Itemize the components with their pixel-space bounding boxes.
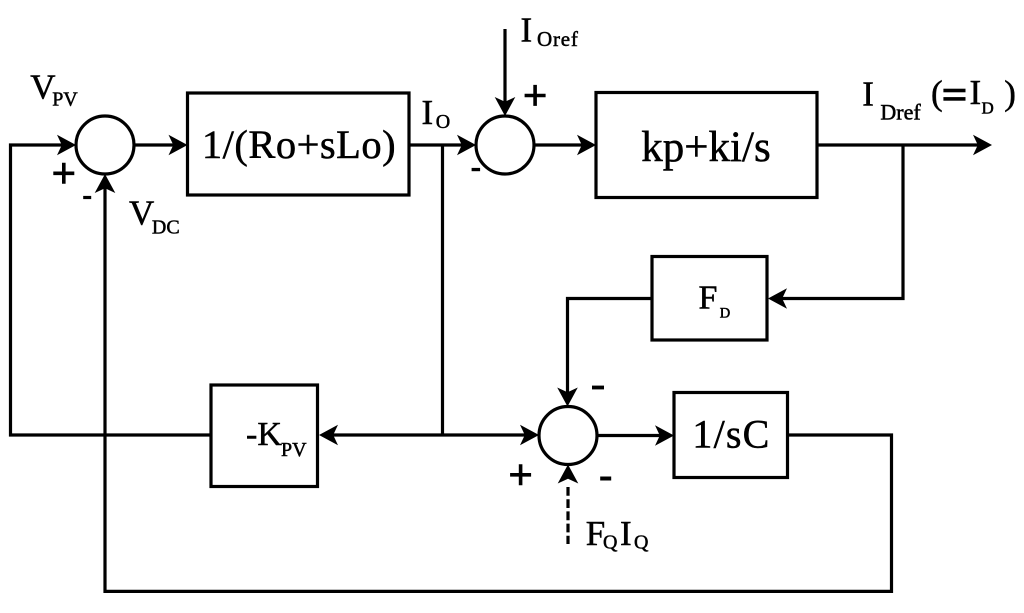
wire Ioref input xyxy=(503,29,506,102)
block -Kpv xyxy=(211,385,318,487)
wire branch to FD xyxy=(782,146,903,299)
plus sign sum2 xyxy=(525,85,546,106)
svg-text:F: F xyxy=(699,279,718,316)
arrowhead into block1 xyxy=(169,135,188,156)
wire dashed FqIq input xyxy=(566,487,569,544)
arrowhead into FD right xyxy=(768,288,787,309)
summing node 2 xyxy=(476,116,534,174)
svg-text:Q: Q xyxy=(603,532,618,554)
svg-text:O: O xyxy=(436,111,450,133)
minus sign sum3 bottom xyxy=(600,477,611,481)
svg-text:I: I xyxy=(521,11,533,50)
wire FD to sum3 xyxy=(568,299,653,394)
svg-text:I: I xyxy=(620,514,632,553)
svg-text:PV: PV xyxy=(52,89,78,111)
svg-text:DC: DC xyxy=(152,217,180,239)
svg-text:Q: Q xyxy=(634,532,649,554)
plus sign sum1 xyxy=(53,163,74,184)
svg-text:I: I xyxy=(422,93,434,132)
block FD xyxy=(652,257,767,341)
arrowhead output right xyxy=(973,135,992,156)
arrowhead into sum3 top xyxy=(557,388,578,407)
svg-text:D: D xyxy=(720,305,730,321)
svg-text:V: V xyxy=(129,193,154,232)
svg-text:): ) xyxy=(1004,74,1016,113)
summing node 1 xyxy=(76,116,134,174)
svg-text:D: D xyxy=(982,98,994,117)
arrowhead into sum2 top xyxy=(495,97,516,116)
wire block1 to sum2 xyxy=(409,143,462,146)
wire sum1 to block1 xyxy=(134,143,174,146)
arrowhead dashed into sum3 bottom xyxy=(558,465,579,484)
wire sum2 to block2 xyxy=(534,143,582,146)
wire Io row to -Kpv and sum3 xyxy=(333,433,525,436)
svg-text:I: I xyxy=(862,75,874,114)
svg-text:Dref: Dref xyxy=(880,99,921,124)
arrowhead into -Kpv right xyxy=(319,425,338,446)
svg-text:(: ( xyxy=(931,74,943,113)
block 1/sC xyxy=(674,393,788,478)
arrowhead into sum1 left xyxy=(57,135,76,156)
minus sign sum2 xyxy=(472,168,481,171)
arrowhead into sum1 bottom xyxy=(95,174,116,193)
block kp+ki/s xyxy=(596,93,817,198)
svg-text:-K: -K xyxy=(246,416,282,453)
arrowhead into sum3 left xyxy=(520,425,539,446)
svg-text:1/(Ro+sLo): 1/(Ro+sLo) xyxy=(202,122,396,167)
wire output Idref xyxy=(817,143,978,146)
plus sign sum3 xyxy=(510,464,531,485)
svg-text:1/sC: 1/sC xyxy=(692,411,770,456)
svg-text:I: I xyxy=(970,73,982,112)
minus sign sum3 top xyxy=(592,386,604,390)
wire sum3 to 1/sC xyxy=(597,434,660,437)
svg-text:Oref: Oref xyxy=(537,27,579,51)
arrowhead into 1/sC xyxy=(655,425,674,446)
wire Io dropline xyxy=(441,146,444,435)
wire feedback from -Kpv to summing node 1 xyxy=(11,145,212,435)
minus sign sum1 xyxy=(83,196,91,199)
block 1/(Ro+sLo) xyxy=(188,93,410,195)
arrowhead into sum2 left xyxy=(457,135,476,156)
wire Vdc feedback bottom loop xyxy=(105,188,892,591)
arrowhead into block2 xyxy=(577,135,596,156)
svg-text:kp+ki/s: kp+ki/s xyxy=(641,124,770,171)
svg-text:PV: PV xyxy=(281,439,307,461)
summing node 3 xyxy=(539,407,597,465)
